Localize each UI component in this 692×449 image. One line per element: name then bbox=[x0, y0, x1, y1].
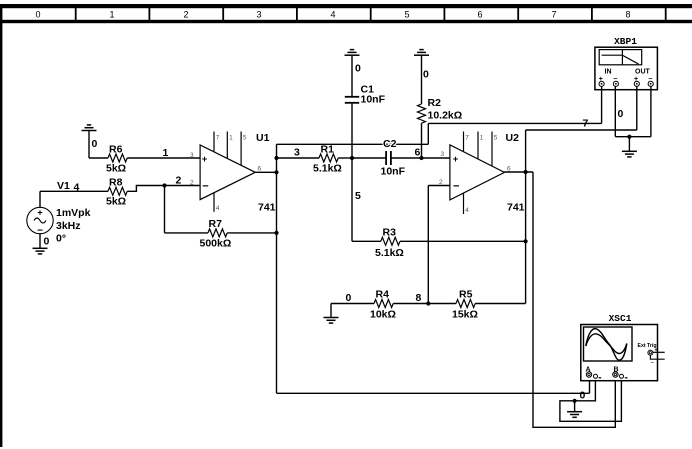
junction R3 right bbox=[524, 239, 528, 243]
svg-text:15kΩ: 15kΩ bbox=[452, 309, 478, 321]
Bode plotter XBP1 bbox=[595, 36, 658, 90]
ground at scope bbox=[567, 412, 582, 418]
wire U2 out to scope B bbox=[533, 172, 615, 427]
wire C2 to U2 + input bbox=[391, 157, 450, 159]
svg-text:3: 3 bbox=[190, 152, 194, 159]
ground under V1 bbox=[33, 248, 48, 254]
svg-text:7: 7 bbox=[465, 135, 469, 142]
wire R4 ground stem bbox=[330, 304, 332, 318]
svg-text:500kΩ: 500kΩ bbox=[200, 238, 232, 250]
svg-text:3kHz: 3kHz bbox=[56, 220, 81, 232]
svg-text:7: 7 bbox=[551, 10, 556, 20]
wire to XBP1 IN+ bbox=[428, 122, 601, 124]
ruler numbers bbox=[35, 10, 630, 20]
svg-text:7: 7 bbox=[216, 135, 220, 142]
ground above C1 (inverted) bbox=[345, 50, 360, 56]
junction node 3 bbox=[274, 156, 278, 160]
junction node 8 bbox=[426, 301, 430, 305]
ground above R2 (inverted) bbox=[414, 50, 429, 56]
svg-text:0: 0 bbox=[44, 236, 50, 248]
wire XBP1 ground stem bbox=[628, 137, 630, 152]
svg-text:R5: R5 bbox=[459, 289, 473, 301]
wire V1 to R8 bbox=[40, 190, 108, 192]
ruler cell dividers bbox=[76, 8, 666, 20]
svg-text:R3: R3 bbox=[383, 227, 397, 239]
svg-text:3: 3 bbox=[441, 151, 445, 158]
svg-text:6: 6 bbox=[415, 147, 421, 159]
svg-text:0: 0 bbox=[423, 69, 429, 81]
svg-text:+: + bbox=[453, 154, 459, 165]
wire U2 output down to R3/R5 bbox=[525, 172, 527, 304]
junction node 5 bbox=[350, 156, 354, 160]
resistor R6 bbox=[89, 144, 127, 175]
svg-text:0: 0 bbox=[618, 108, 624, 120]
svg-text:6: 6 bbox=[477, 10, 482, 20]
wire XBP1 OUT- down bbox=[650, 86, 652, 136]
wire scope ground stem bbox=[574, 401, 576, 412]
svg-text:V1: V1 bbox=[57, 180, 70, 192]
svg-text:C2: C2 bbox=[383, 138, 397, 150]
svg-text:8: 8 bbox=[625, 10, 630, 20]
wire XBP1 IN+ down bbox=[601, 86, 603, 123]
wire node5 down to R3 bbox=[351, 158, 353, 241]
svg-text:2: 2 bbox=[183, 10, 188, 20]
svg-text:0: 0 bbox=[580, 390, 586, 402]
ground at R4 bbox=[324, 318, 339, 324]
svg-text:1mVpk: 1mVpk bbox=[56, 207, 91, 219]
page top border bbox=[0, 4, 692, 8]
ground above R6 (inverted) bbox=[82, 125, 97, 131]
svg-text:5.1kΩ: 5.1kΩ bbox=[313, 163, 342, 175]
svg-text:IN: IN bbox=[605, 69, 612, 76]
wire U2 - input bbox=[428, 185, 450, 187]
svg-text:U2: U2 bbox=[506, 132, 520, 144]
svg-text:3: 3 bbox=[294, 147, 300, 159]
svg-text:−: − bbox=[651, 360, 654, 366]
op-amp U2 bbox=[439, 132, 525, 215]
wire XBP1 OUT+ down bbox=[636, 86, 638, 130]
wire jog vertical bbox=[427, 123, 429, 144]
wire U2 output bbox=[504, 171, 533, 173]
junction scope ground bbox=[573, 399, 577, 403]
wire R6 to U1 + input bbox=[127, 157, 200, 159]
wire ground to R6 bbox=[88, 131, 90, 159]
wire to XBP1 OUT+ bbox=[526, 129, 637, 131]
svg-text:0: 0 bbox=[35, 10, 40, 20]
svg-text:−: − bbox=[453, 180, 459, 192]
svg-text:R2: R2 bbox=[428, 97, 442, 109]
resistor R8 bbox=[106, 177, 127, 208]
svg-text:10nF: 10nF bbox=[361, 94, 386, 106]
wire scope A+ vertical bbox=[589, 377, 591, 393]
junction node 6 bbox=[419, 156, 423, 160]
junction XBP1 ground bbox=[627, 135, 631, 139]
wire XBP1 IN- to OUT- bbox=[615, 136, 651, 138]
svg-text:XSC1: XSC1 bbox=[609, 313, 632, 324]
svg-text:R8: R8 bbox=[109, 177, 123, 189]
ruler bottom border bbox=[0, 20, 692, 23]
wire node5 to C2 bbox=[352, 157, 386, 159]
wire R8 jog to U1 - input bbox=[127, 186, 200, 192]
resistor R3 bbox=[352, 227, 526, 260]
svg-text:1: 1 bbox=[163, 147, 169, 159]
svg-text:R6: R6 bbox=[109, 144, 123, 156]
svg-text:4: 4 bbox=[330, 10, 335, 20]
svg-text:0: 0 bbox=[346, 292, 352, 304]
svg-text:−: − bbox=[202, 180, 208, 192]
svg-text:5: 5 bbox=[355, 190, 361, 202]
svg-text:2: 2 bbox=[190, 180, 194, 187]
wire U1 output vertical bbox=[276, 144, 278, 393]
svg-text:6: 6 bbox=[258, 166, 262, 173]
resistor R5 bbox=[428, 289, 525, 321]
svg-text:10.2kΩ: 10.2kΩ bbox=[428, 110, 463, 122]
AC source V1 bbox=[27, 180, 91, 245]
wire U1 out to scope A horizontal bbox=[277, 392, 590, 394]
svg-text:3: 3 bbox=[256, 10, 261, 20]
wire node3 top horizontal to jog bbox=[277, 143, 429, 145]
op-amp U1 bbox=[190, 132, 276, 214]
svg-text:R4: R4 bbox=[376, 289, 390, 301]
svg-text:XBP1: XBP1 bbox=[614, 36, 637, 47]
svg-text:4: 4 bbox=[216, 205, 220, 212]
wire R1 to node 5 bbox=[338, 157, 352, 159]
wire XBP1 IN- down bbox=[614, 86, 616, 136]
svg-text:5: 5 bbox=[494, 135, 498, 142]
svg-text:7: 7 bbox=[583, 118, 589, 130]
wire V1 top bbox=[39, 191, 41, 207]
svg-text:OUT: OUT bbox=[635, 69, 651, 76]
svg-text:1: 1 bbox=[229, 135, 233, 142]
page left border bbox=[0, 8, 2, 447]
svg-text:741: 741 bbox=[258, 202, 276, 214]
svg-text:8: 8 bbox=[416, 292, 422, 304]
svg-text:10nF: 10nF bbox=[381, 166, 406, 178]
ground at XBP1 bbox=[622, 151, 637, 157]
svg-text:5kΩ: 5kΩ bbox=[106, 163, 126, 175]
Oscilloscope XSC1 bbox=[581, 313, 665, 381]
svg-text:0: 0 bbox=[355, 63, 361, 75]
wire U1 output bbox=[255, 171, 276, 173]
capacitor C1 bbox=[345, 55, 386, 158]
svg-text:0: 0 bbox=[92, 138, 98, 150]
resistor R7 bbox=[165, 186, 277, 250]
svg-text:741: 741 bbox=[507, 202, 525, 214]
svg-text:1: 1 bbox=[480, 135, 484, 142]
wire scope A- ground branch bbox=[560, 379, 622, 422]
resistor R1 bbox=[313, 144, 342, 175]
junction U2 output bbox=[524, 170, 528, 174]
junction R7 output bbox=[274, 231, 278, 235]
svg-text:+: + bbox=[202, 154, 208, 165]
svg-text:10kΩ: 10kΩ bbox=[370, 309, 396, 321]
junction node 2 / R7 bbox=[162, 183, 166, 187]
junction U1 output bbox=[274, 170, 278, 174]
wire U2 output up bbox=[525, 130, 527, 172]
svg-text:0°: 0° bbox=[56, 233, 66, 245]
svg-text:R1: R1 bbox=[321, 144, 335, 156]
svg-text:5kΩ: 5kΩ bbox=[106, 196, 126, 208]
svg-text:5.1kΩ: 5.1kΩ bbox=[375, 247, 404, 259]
wire V1 bottom to ground bbox=[39, 234, 41, 249]
svg-text:1: 1 bbox=[109, 10, 114, 20]
wire node3 to R1 bbox=[277, 157, 320, 159]
wire U2 - input vertical to node 8 bbox=[427, 186, 429, 304]
svg-text:2: 2 bbox=[176, 175, 182, 187]
svg-text:5: 5 bbox=[243, 135, 247, 142]
resistor R2 bbox=[418, 55, 463, 158]
svg-text:+: + bbox=[37, 208, 42, 218]
svg-text:4: 4 bbox=[465, 207, 469, 214]
capacitor C2 bbox=[381, 138, 406, 178]
svg-text:U1: U1 bbox=[256, 132, 270, 144]
resistor R4 bbox=[331, 289, 428, 321]
svg-text:R7: R7 bbox=[209, 218, 223, 230]
svg-text:5: 5 bbox=[404, 10, 409, 20]
